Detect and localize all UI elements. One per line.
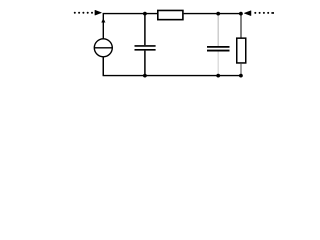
resistor R1 — [158, 10, 183, 19]
node D junction dot (C1 bottom) — [143, 74, 147, 78]
resistor R2 — [237, 38, 246, 63]
resistor R2 lead top — [240, 14, 242, 38]
resistor R2 lead bottom — [240, 64, 242, 76]
wire bottom rail — [103, 75, 241, 77]
current direction arrow on source lead — [101, 18, 105, 22]
capacitor C1 — [135, 14, 156, 76]
node F junction dot (R2 bottom) — [239, 74, 243, 78]
port P2 dotted arrow (output, pointing left) — [244, 11, 274, 16]
wire top left corner to resistor R1 — [103, 14, 157, 76]
node B junction dot (C2 top) — [216, 12, 220, 16]
wire resistor R1 to node B — [184, 13, 241, 15]
node E junction dot (C2 bottom) — [216, 74, 220, 78]
wire left vertical lower segment — [102, 57, 104, 76]
current source I1 — [94, 39, 112, 57]
node C junction dot (R2 top) — [239, 12, 243, 16]
port P1 dotted arrow (input, pointing right) — [74, 10, 102, 15]
capacitor C2 — [207, 14, 230, 76]
node A junction dot (C1 top) — [143, 12, 147, 16]
